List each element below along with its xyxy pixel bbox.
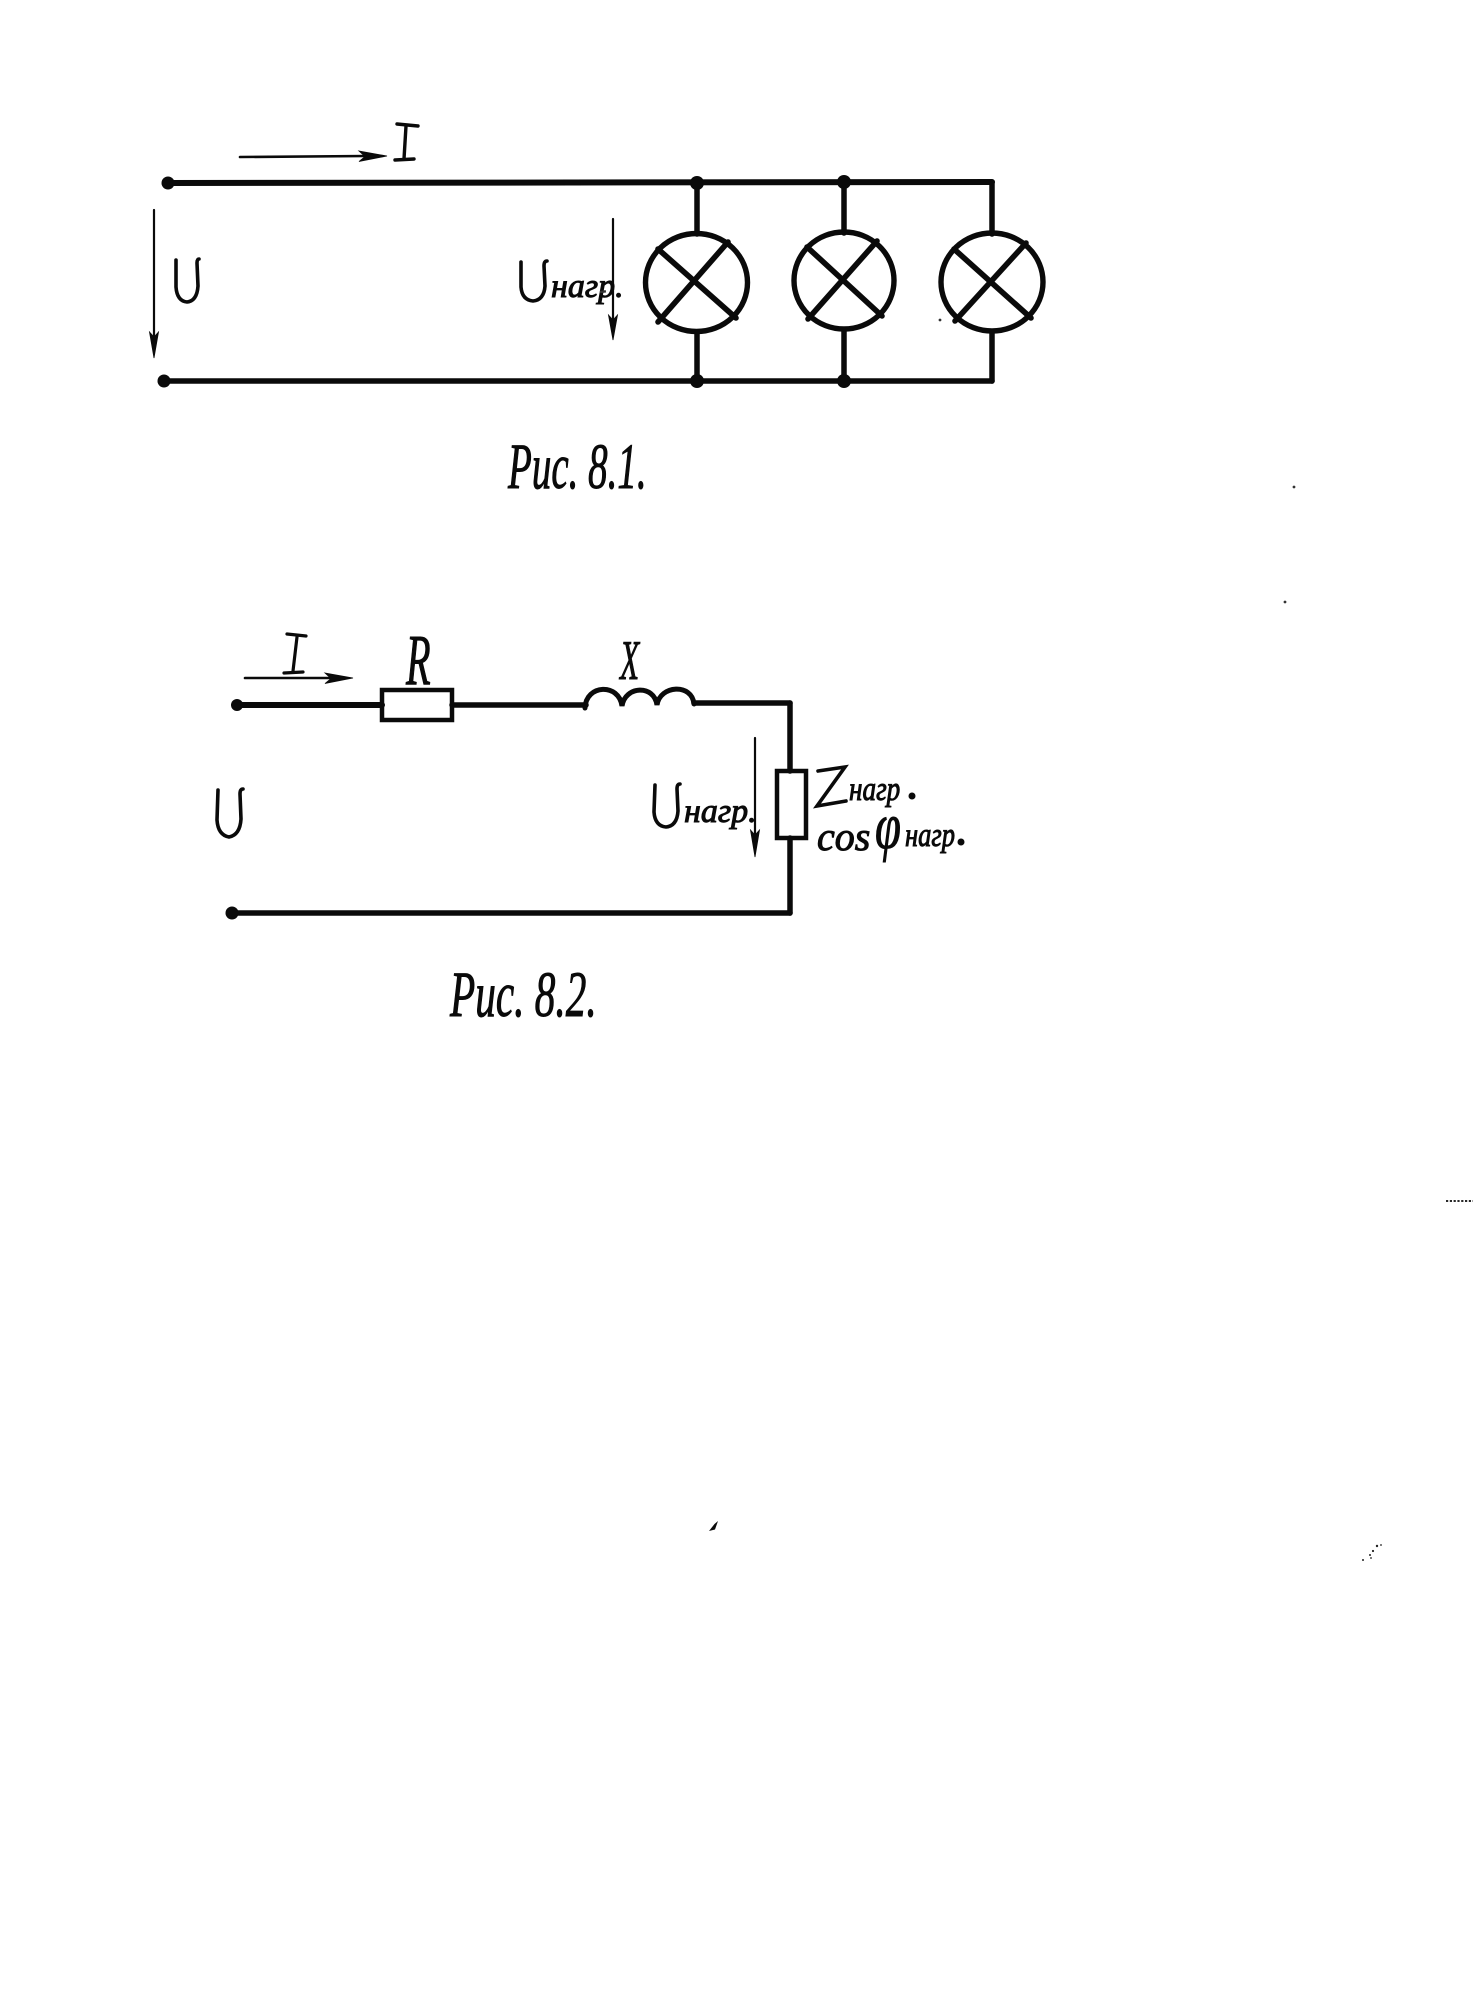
wire: load to bottom bus [787,838,793,913]
node: left bottom terminal (Fig 8.2) [226,907,239,920]
voltage arrow U нагр. (Fig 8.2) [754,738,756,838]
wire: bottom bus of Fig 8.1 [164,378,992,384]
svg-text:cos: cos [817,814,870,859]
svg-text:φ: φ [875,790,901,863]
lamp EL2: circle with cross [794,232,894,329]
svg-text:X: X [619,630,641,692]
scan artifact: speck dots [600,290,1296,603]
voltage arrow U (Fig 8.1) [153,210,155,340]
wire: from terminal to resistor [237,702,382,708]
svg-text:Рис. 8.2.: Рис. 8.2. [449,958,596,1031]
label U нагр. (Fig 8.2) [654,784,680,827]
lamp EL2: stub bottom [841,330,847,381]
label Z нагр. [817,767,846,806]
wire: right vertical down to load [787,703,793,771]
lamp EL2: stub top [841,182,847,233]
wire: top bus of Fig 8.1 [168,182,992,183]
node: junction top EL1 [690,176,704,190]
current arrow I (Fig 8.2) [245,677,334,680]
label U (Fig 8.1) [176,259,199,302]
scan artifact: comma mark [709,1521,718,1531]
label I (Fig 8.2) [284,634,306,673]
scan artifact: small mark lower right [1362,1544,1382,1561]
lamp EL1: circle with cross [646,234,748,332]
wire: inductor to right corner [694,700,790,706]
label U нагр. (Fig 8.1) [521,261,547,301]
svg-text:нагр.: нагр. [684,793,757,830]
svg-text:нагр: нагр [905,816,955,854]
wire: resistor to inductor [452,702,586,708]
svg-text:R: R [405,620,430,700]
node: left top terminal (Fig 8.2) [231,699,243,711]
node: junction top EL2 [837,175,851,189]
node: left bottom terminal [158,375,171,388]
current arrow I (Fig 8.1) [240,156,366,157]
lamp EL1: stub bottom [694,332,700,381]
label U (Fig 8.2) [217,789,243,837]
resistor R: body [382,690,452,720]
lamp EL3: circle with cross [941,233,1043,331]
label I (Fig 8.1) [395,124,418,160]
node: junction bottom EL2 [837,374,851,388]
svg-text:Рис. 8.1.: Рис. 8.1. [507,430,646,503]
inductor X: three humps [585,689,694,708]
lamp EL3: stub top [989,182,995,234]
wire: bottom bus of Fig 8.2 [232,910,790,916]
load Z: body rectangle [777,771,806,838]
node: junction bottom EL1 [690,374,704,388]
voltage arrow U нагр. (Fig 8.1) [612,219,614,322]
node: left top terminal [162,177,175,190]
lamp EL3: stub bottom [989,332,995,381]
lamp EL1: stub top [694,183,700,234]
scan artifact: right margin dashes [1446,1200,1473,1202]
